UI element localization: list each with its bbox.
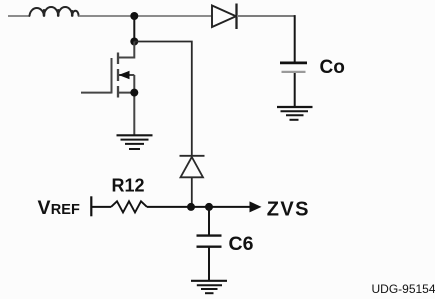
- ground (below C6): [191, 281, 227, 293]
- wire right vertical down to Co: [294, 15, 296, 62]
- node junction dot (source): [130, 89, 138, 97]
- wire top rail from inductor to diode: [79, 15, 212, 17]
- svg-text:REF: REF: [51, 202, 80, 218]
- VREF terminal tick: [90, 196, 92, 216]
- svg-text:Co: Co: [320, 57, 345, 78]
- wire top rail from diode to right corner: [237, 15, 296, 17]
- body stub: [118, 74, 134, 76]
- wire from top junction down: [133, 16, 135, 42]
- node junction dot (C6 tap): [205, 203, 213, 211]
- body diode arrow of Q1: [119, 71, 130, 79]
- arrow to ZVS output: [250, 201, 262, 212]
- inductor L (input coil): [30, 7, 79, 16]
- wire top rail left segment: [8, 15, 30, 17]
- node junction dot (drain tap): [130, 38, 138, 46]
- channel dashes: [117, 53, 119, 65]
- svg-text:V: V: [38, 197, 51, 219]
- diode D (top rectifier, anode left): [212, 4, 237, 30]
- wire from resistor to ZVS node: [147, 206, 251, 208]
- gate lead: [81, 92, 112, 94]
- source stub: [118, 92, 134, 94]
- node junction dot at top rail: [130, 12, 138, 20]
- svg-text:C6: C6: [229, 233, 254, 255]
- wire C6 branch vertical: [208, 207, 210, 235]
- diode D2 (clamp diode, cathode up): [180, 156, 205, 207]
- wire from drain tap to snubber diode branch: [134, 42, 192, 156]
- body-source tie vertical: [133, 75, 135, 135]
- resistor R12: [111, 201, 147, 212]
- svg-text:ZVS: ZVS: [267, 199, 310, 221]
- label VREF: [38, 197, 80, 219]
- capacitor Co: [280, 63, 307, 107]
- ground (below Co): [277, 107, 313, 120]
- drain stub: [118, 42, 134, 58]
- wire from terminal to resistor: [91, 206, 111, 208]
- svg-text:R12: R12: [112, 176, 145, 196]
- svg-text:UDG-95154: UDG-95154: [372, 282, 435, 296]
- capacitor C6: [197, 236, 222, 281]
- ground (below Q1 source): [117, 135, 153, 149]
- gate bar: [111, 58, 113, 94]
- transistor Q1 (power MOSFET): [81, 42, 134, 136]
- node junction dot (diode to node): [187, 203, 195, 211]
